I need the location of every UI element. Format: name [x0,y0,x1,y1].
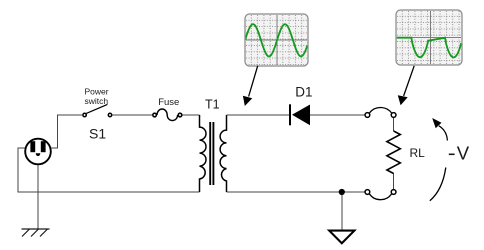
svg-text:Power: Power [85,86,109,96]
svg-text:switch: switch [85,96,109,106]
svg-text:T1: T1 [205,98,220,112]
svg-text:Fuse: Fuse [158,97,179,108]
svg-text:D1: D1 [295,85,312,100]
svg-text:S1: S1 [89,126,106,142]
svg-text:RL: RL [410,146,426,160]
svg-text:V: V [457,143,470,164]
